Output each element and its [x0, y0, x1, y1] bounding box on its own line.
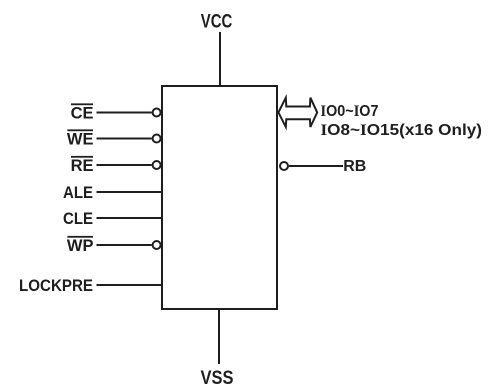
svg-text:VSS: VSS: [201, 368, 234, 389]
svg-text:VCC: VCC: [201, 12, 233, 33]
svg-text:LOCKPRE: LOCKPRE: [19, 277, 93, 295]
svg-text:WE: WE: [67, 131, 94, 149]
svg-text:RB: RB: [343, 158, 366, 175]
svg-text:CLE: CLE: [63, 210, 93, 228]
svg-text:WP: WP: [67, 237, 94, 255]
svg-text:IO8~IO15(x16 Only): IO8~IO15(x16 Only): [321, 122, 483, 139]
svg-text:ALE: ALE: [63, 184, 93, 202]
svg-text:RE: RE: [71, 157, 94, 175]
svg-text:CE: CE: [71, 105, 94, 123]
svg-text:IO0~IO7: IO0~IO7: [321, 103, 379, 120]
